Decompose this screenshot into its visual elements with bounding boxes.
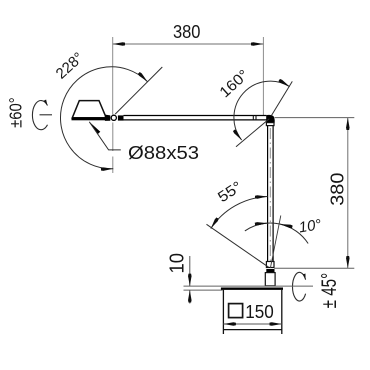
arm divider near elbow	[252, 116, 254, 120]
svg-text:10: 10	[165, 253, 188, 274]
svg-text:± 45°: ± 45°	[318, 273, 341, 309]
node leader arrow for diameter note	[89, 122, 100, 134]
node 10 degree arc	[245, 223, 308, 243]
svg-text:160°: 160°	[216, 67, 252, 102]
stem collar bottom	[266, 262, 274, 268]
arm tube top line	[124, 115, 267, 117]
node 10 tilted axis line	[270, 216, 280, 269]
svg-text:380: 380	[173, 22, 201, 42]
node 160 lower reference line	[236, 119, 269, 147]
node 228 diagonal reference line 45deg	[115, 67, 162, 114]
node 10 degree arrow left	[260, 223, 268, 224]
stem tube right line	[272, 123, 274, 262]
stem centerline dash-dot	[269, 128, 271, 264]
stem collar top	[266, 123, 274, 126]
lamp head shade	[72, 101, 105, 118]
node centerline dashed below head joint	[112, 123, 114, 152]
head ball joint	[111, 115, 116, 120]
node 10 degree arrow right	[280, 224, 287, 226]
wire extension line 10dim lower	[184, 289, 223, 291]
node 55 degree arc	[211, 197, 268, 229]
node rotation symbol right	[292, 272, 305, 301]
svg-text:380: 380	[328, 173, 348, 206]
svg-text:Ø88x53: Ø88x53	[128, 143, 199, 163]
node base width dimension line	[223, 323, 281, 325]
base body right edge	[281, 290, 283, 334]
svg-text:10°: 10°	[298, 216, 323, 236]
node 10 dim vertical line lower	[189, 290, 191, 303]
stem riser block	[265, 273, 275, 286]
node 160 degree arc	[234, 81, 290, 140]
elbow joint block	[266, 115, 275, 123]
base bottom edge	[223, 329, 281, 331]
wire extension right from elbow	[275, 117, 355, 119]
base body left edge	[222, 290, 224, 334]
svg-text:150: 150	[245, 302, 273, 322]
lamp head bottom thick bar	[72, 118, 106, 121]
wire extension line left of top dimension	[112, 37, 114, 115]
node square symbol	[229, 304, 243, 318]
node top dimension line 380	[113, 43, 264, 45]
svg-text:±60°: ±60°	[5, 97, 25, 128]
node 228 degree arc	[60, 67, 147, 169]
arm tube bottom line	[124, 119, 267, 121]
node 10 dim vertical line upper	[189, 256, 191, 286]
stem black pivot band	[266, 269, 274, 273]
arm clamp at ball	[118, 115, 124, 120]
wire extension bottom right dim	[274, 267, 354, 269]
node 160 upper reference line	[271, 81, 292, 115]
wire extension line 10dim upper	[184, 285, 314, 287]
stem tube left line	[267, 123, 269, 262]
wire extension line right of top dimension	[262, 37, 264, 115]
svg-text:55°: 55°	[215, 178, 245, 206]
head joint attachment	[105, 115, 110, 121]
node 55 reference diagonal	[207, 224, 269, 267]
svg-text:228°: 228°	[53, 49, 87, 82]
node rotation symbol left	[32, 101, 47, 130]
node right dimension line 380	[347, 118, 349, 269]
base top lip thick edge	[221, 288, 283, 290]
